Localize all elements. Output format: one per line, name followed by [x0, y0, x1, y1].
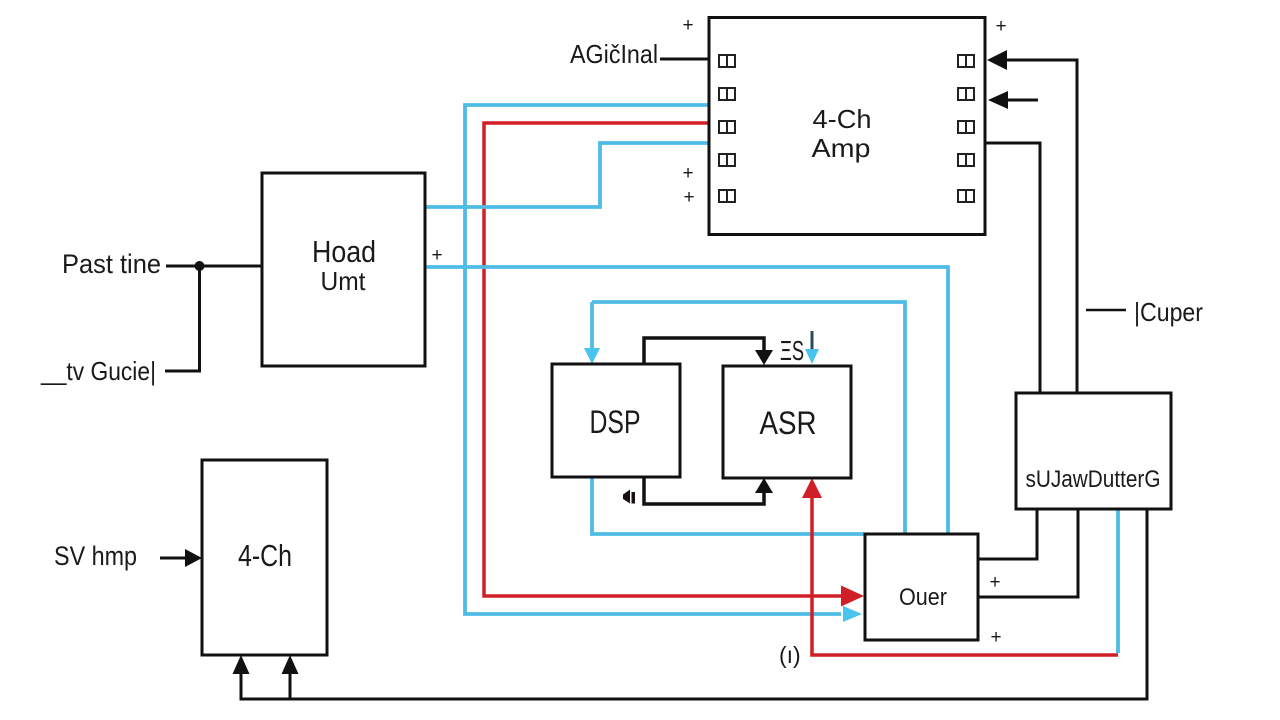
amp pin L4 [719, 154, 735, 166]
box DSP [552, 364, 680, 477]
svg-text:Amp: Amp [812, 133, 871, 163]
wire black down from junction to tv-gucie [165, 266, 200, 371]
wire black amp out right down to subwoofers [985, 143, 1040, 393]
amp pin R4 [958, 154, 974, 166]
wire red from ASP bottom to right [810, 496, 814, 655]
svg-text:ASR: ASR [760, 405, 817, 441]
box 4-Ch Amp [709, 18, 985, 235]
svg-text:AGičInal: AGičInal [570, 39, 658, 69]
speaker glyph [623, 490, 630, 504]
svg-text:ΞS: ΞS [780, 335, 804, 366]
svg-text:Ouer: Ouer [899, 584, 947, 611]
junction dot [195, 261, 205, 271]
svg-text:+: + [431, 245, 442, 266]
svg-text:|Cuper: |Cuper [1134, 297, 1203, 327]
box Head Unit [262, 173, 425, 366]
amp pin L1 [719, 55, 735, 67]
svg-text:+: + [995, 16, 1006, 37]
wire cyan inner loop lower left to Over corner [592, 477, 864, 534]
wire cyan loop from corner to amp input 1 [465, 105, 841, 614]
amp pin R1 [958, 55, 974, 67]
box 4-Ch sw amp [202, 460, 327, 655]
svg-text:DSP: DSP [590, 404, 641, 440]
wire black Over out bottom to subwoofer bottom [978, 509, 1078, 597]
wire black past-tine into head unit [166, 265, 262, 268]
amp pin R5 [958, 190, 974, 202]
wire black Over out top to subwoofer bottom [978, 509, 1037, 559]
red arrowhead into Over left [841, 586, 864, 607]
svg-text:+: + [989, 572, 1000, 593]
svg-text:__tv Gucie|: __tv Gucie| [40, 356, 156, 386]
wire cyan head-unit out 1 to amp input 3 [425, 143, 709, 207]
wire black DSP-ASP top loop [644, 338, 764, 366]
box Over [865, 534, 978, 640]
svg-text:+: + [682, 163, 693, 184]
svg-text:+: + [683, 187, 694, 208]
box Subwoofers [1016, 393, 1171, 509]
amp pin R3 [958, 121, 974, 133]
svg-text:SV hmp: SV hmp [54, 541, 137, 571]
SV amp arrow [160, 557, 187, 560]
svg-text:4-Ch: 4-Ch [238, 538, 292, 573]
cyan arrowhead into Over left [843, 606, 862, 622]
box ASP [723, 366, 851, 478]
svg-text:Hoad: Hoad [312, 234, 376, 269]
wire cyan head-unit out 2 outer loop [425, 267, 948, 533]
svg-text:4-Ch: 4-Ch [813, 104, 872, 134]
svg-text:Past tine: Past tine [62, 249, 161, 279]
amp pin R2 [958, 88, 974, 100]
wire red loop to amp input 2 and Over [484, 123, 841, 596]
svg-text:+: + [990, 627, 1001, 648]
wire black DSP-ASP bottom loop [644, 477, 764, 504]
svg-text:(ı): (ı) [779, 642, 801, 668]
wire black long bottom run from subwoofer to 4-Ch arrows [241, 509, 1147, 699]
amp pin L3 [719, 121, 735, 133]
wire black subwoofers up into amp right arrow [1005, 60, 1077, 393]
wire cyan inner loop top and right [592, 302, 905, 533]
svg-text:Umt: Umt [321, 266, 367, 296]
amp pin L5 [719, 190, 735, 202]
cyan arrow into ASP top [811, 331, 814, 351]
svg-text:sUJawDutterG: sUJawDutterG [1026, 466, 1161, 493]
cyan arrow into DSP top [590, 302, 594, 350]
plus marks [431, 15, 1006, 648]
amp pin L2 [719, 88, 735, 100]
jumper tick line [1086, 309, 1126, 312]
wire cyan subwoofer bottom drop [1116, 509, 1120, 653]
svg-text:+: + [682, 15, 693, 36]
wire black signal into amp left [660, 58, 709, 61]
second up arrow into 4-Ch bottom [289, 663, 292, 699]
floating black arrow into amp right [1006, 99, 1038, 102]
